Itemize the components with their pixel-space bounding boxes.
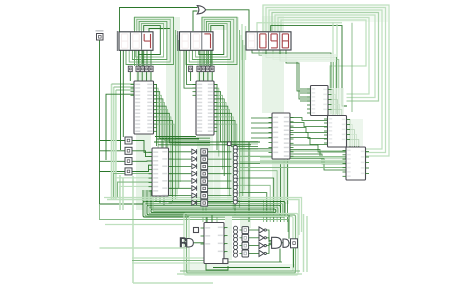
wire U8 left-bottom rails bbox=[132, 258, 204, 263]
logic probe P1 bbox=[96, 30, 104, 40]
wire tails right of DS2 bbox=[240, 30, 245, 208]
AND gate G1 bbox=[272, 237, 282, 248]
component box K1 bbox=[223, 259, 228, 264]
wire transistors to U2 bbox=[191, 72, 213, 81]
wire tails right of DS1 bbox=[176, 30, 181, 200]
wire left light band bbox=[106, 84, 134, 200]
microcontroller U2 bbox=[193, 81, 218, 135]
comparator pairs bbox=[234, 226, 238, 257]
wire DS3 to U4 bbox=[252, 50, 339, 114]
wire probe trunk bbox=[100, 40, 144, 204]
buffer G2 bbox=[283, 239, 289, 247]
wire DS1 top to OR gate bbox=[120, 8, 198, 32]
wire loop under U8 bbox=[206, 264, 228, 271]
display DS1 bbox=[117, 31, 153, 51]
component box K2 bbox=[194, 228, 199, 233]
wire G1 feedback bbox=[279, 249, 281, 263]
wire into U3 left bbox=[251, 118, 272, 138]
wire transistors to U1 bbox=[130, 72, 151, 81]
wire U4 to U5 to U6 bbox=[328, 90, 359, 147]
wire nest top-right bbox=[257, 5, 389, 156]
wire T column staircase bbox=[240, 149, 288, 222]
wire U1 right staircase bbox=[154, 85, 211, 202]
transistor column T1-T8 bbox=[233, 146, 239, 205]
wire display DS1 pin verticals bbox=[121, 51, 124, 151]
transistor row Q1-Q5 bbox=[128, 64, 153, 72]
IC U7 bbox=[149, 148, 173, 204]
microcontroller U1 bbox=[131, 81, 158, 134]
wire U2 right staircase bbox=[214, 85, 258, 216]
button SW2 bbox=[125, 147, 132, 154]
LED column L1-L8 bbox=[201, 149, 208, 206]
wire rails to U6 bbox=[240, 151, 346, 168]
wire verticals x242 bbox=[242, 24, 246, 60]
wire bus shading bbox=[133, 5, 388, 274]
wire verticals below LED bbox=[203, 204, 206, 222]
display DS3 bbox=[246, 32, 291, 50]
wire bottom nest bbox=[100, 190, 302, 235]
comparator squares bbox=[242, 227, 249, 257]
wire bottom cluster loops bbox=[184, 214, 298, 276]
wire cluster outer pale bbox=[304, 214, 308, 272]
label B and buffer gate bbox=[180, 237, 194, 247]
wire branch DS1 top right bbox=[149, 29, 170, 32]
wire out feedback bbox=[293, 249, 295, 268]
wire pairs to squares bbox=[240, 230, 242, 253]
wire U7 lower-left pins bbox=[114, 174, 153, 199]
wire pale fills cascade bbox=[328, 88, 363, 146]
wire up from G2 bbox=[288, 215, 290, 239]
wire into U4 left bbox=[300, 89, 311, 101]
wire rail to B gate bbox=[100, 247, 187, 249]
wire U3 to cascade bbox=[290, 118, 346, 171]
button SW4 bbox=[125, 168, 132, 175]
wire B gate to U8 bbox=[194, 242, 205, 244]
wire G2 to out bbox=[288, 242, 290, 244]
wire nest display DS1 bbox=[126, 17, 174, 66]
wire squares to inverters bbox=[248, 230, 258, 253]
wire LED to T column bbox=[208, 152, 232, 203]
output box bbox=[291, 239, 298, 248]
wire bottom rails bbox=[177, 262, 302, 274]
junction box J1 bbox=[228, 142, 232, 146]
wire U7 bottom pins bbox=[156, 196, 164, 206]
IC U3 bbox=[269, 113, 294, 159]
wire nest display DS2 bbox=[186, 17, 237, 66]
wire buttons to U7 bbox=[132, 141, 152, 172]
wire branch DS2 top to OR bbox=[193, 11, 198, 31]
OR gate U9 bbox=[197, 6, 205, 14]
counter U6 bbox=[343, 147, 370, 180]
counter U5 bbox=[324, 116, 350, 148]
display DS2 bbox=[178, 31, 213, 51]
counter U4 bbox=[307, 86, 332, 116]
wire inverters to AND bbox=[266, 230, 271, 253]
button SW3 bbox=[125, 158, 132, 165]
inverter column bbox=[259, 227, 266, 257]
wire light rail y224 bbox=[105, 224, 184, 226]
wire display DS2 left pins to U2 bbox=[184, 51, 196, 89]
wire rails above diodes bbox=[154, 137, 260, 145]
wire pale band in cluster bbox=[225, 216, 232, 260]
wire OR output to display DS3 bbox=[206, 10, 250, 31]
transistor row Q6-Q10 bbox=[189, 64, 215, 72]
wire left light vertical2 bbox=[120, 175, 213, 283]
button SW1 bbox=[125, 137, 132, 144]
wire U8 to pairs bbox=[224, 228, 232, 252]
wire into U8 top bbox=[207, 215, 217, 223]
wire U7 to diodes bbox=[169, 152, 192, 203]
wire AND to G2 bbox=[282, 242, 284, 244]
IC U8 bbox=[201, 223, 228, 264]
wire vertical x249 bbox=[248, 143, 250, 223]
diode column D1-D8 bbox=[192, 149, 197, 205]
wire button branches bbox=[100, 141, 126, 172]
